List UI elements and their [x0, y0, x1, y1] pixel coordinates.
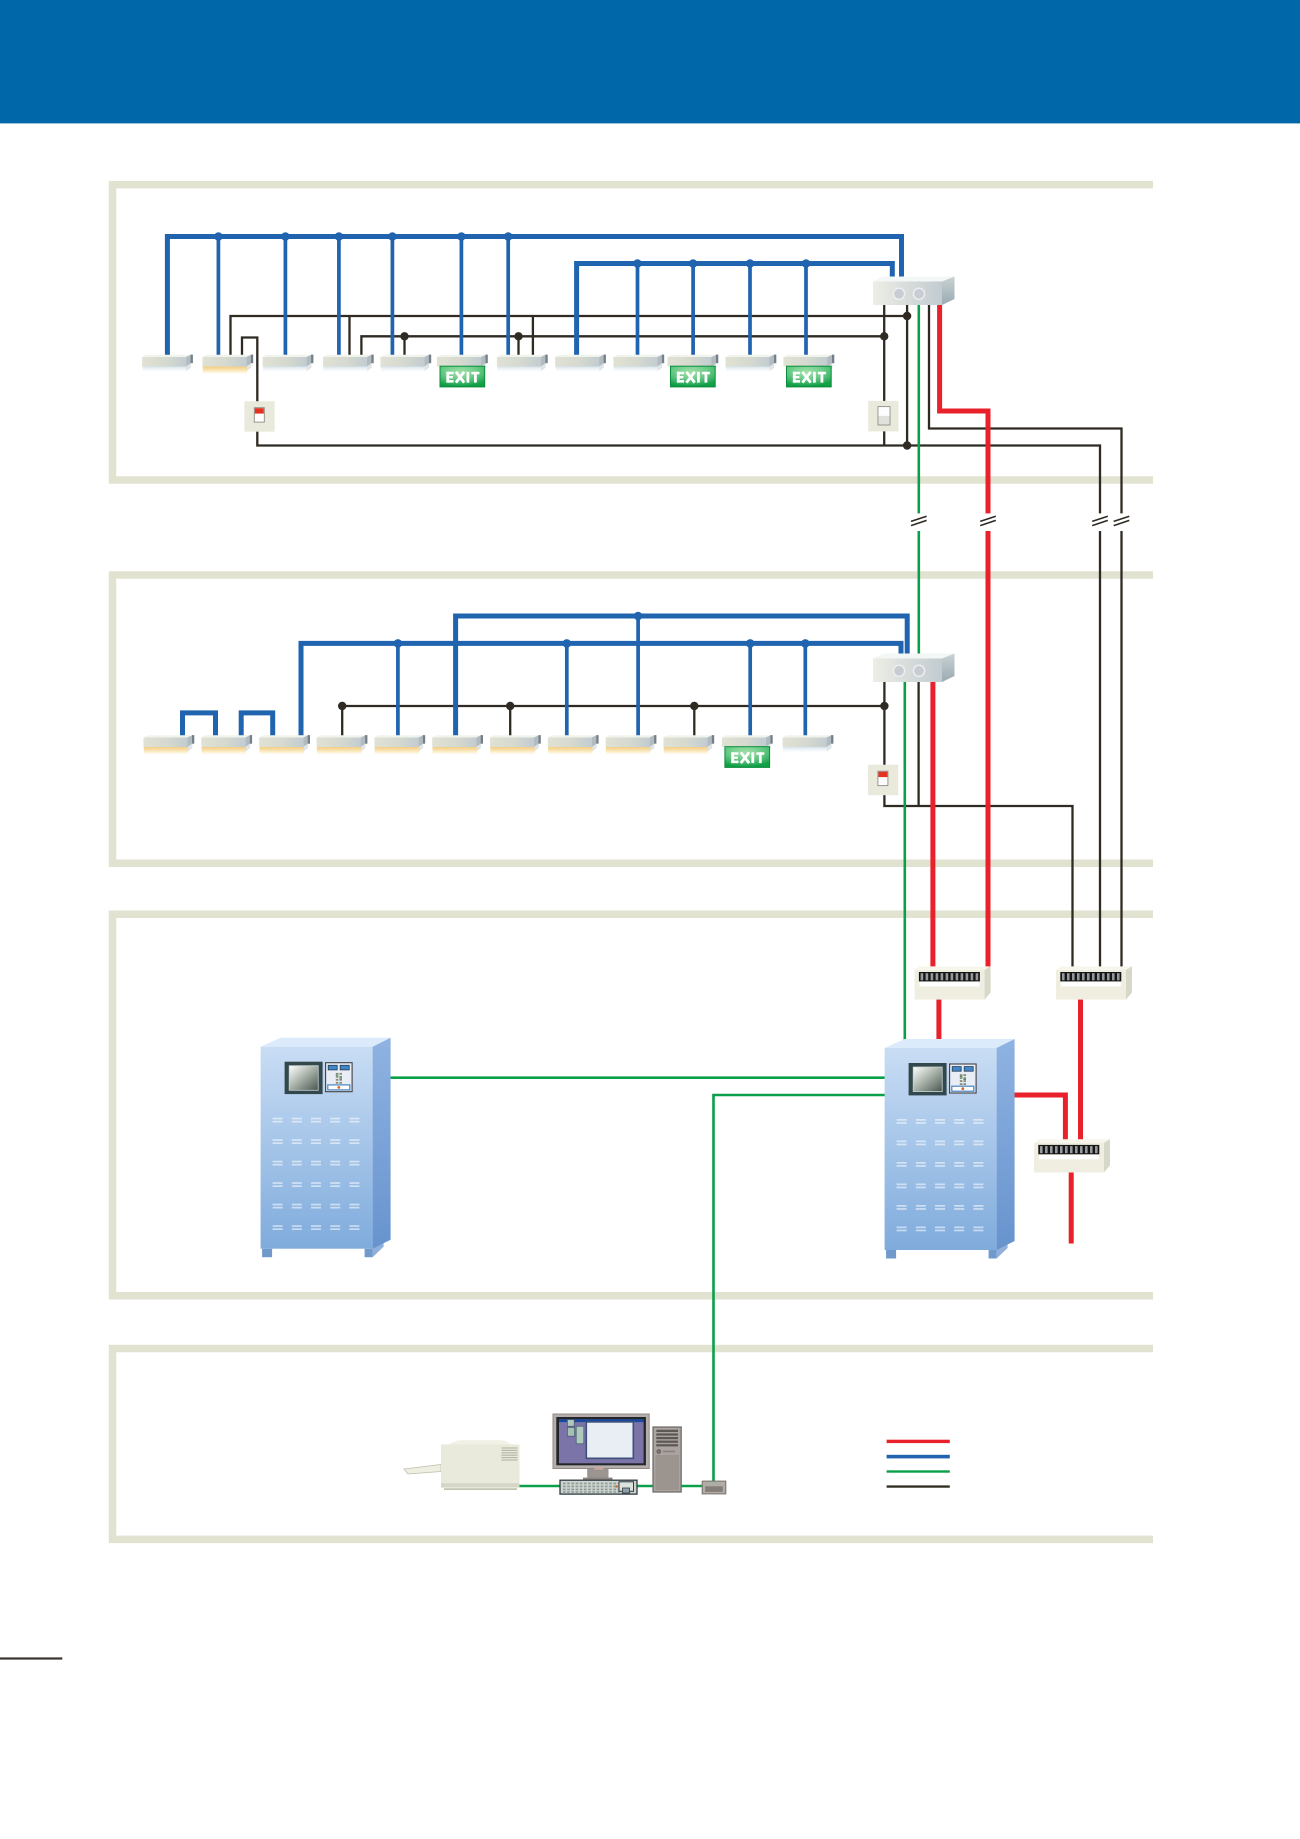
wire black controller 1 supply riser [929, 303, 1122, 513]
floor band 2 frame [113, 575, 1154, 863]
legend black line [887, 1485, 950, 1487]
legend red line [887, 1440, 950, 1443]
wire green data bus between controllers [917, 531, 920, 656]
luminaire 2-1 [144, 735, 195, 754]
wire blue jumper luminaire 2-1 to 2-2 [183, 713, 216, 737]
monitor [553, 1414, 649, 1481]
wire black stub bus G to luminaire 2-10 [693, 706, 695, 737]
luminaire 1-7 [555, 355, 606, 374]
luminaire 2-5 [374, 735, 425, 754]
wire black bus D floor 1 [361, 336, 884, 356]
junction dots bus A [214, 232, 512, 241]
wire green data bus controller 1 down [917, 303, 920, 513]
junction dots bus F [394, 639, 810, 648]
distribution board 1 [915, 966, 991, 999]
wire black drop bus C to luminaire 1-7 [532, 316, 534, 357]
junction dots black floor 2 [338, 702, 889, 710]
wire green battery unit right to monitoring pc [714, 1095, 887, 1481]
call point 1 [244, 401, 274, 432]
wire red mains controller 1 down [940, 303, 988, 513]
printer [404, 1440, 520, 1490]
luminaire 1-2 maintained [202, 355, 253, 374]
plant room band 3 frame [113, 914, 1154, 1295]
wire black riser 2 to distribution board 2 [1120, 531, 1122, 968]
exit sign 2-1 [722, 735, 773, 767]
luminaire 2-10 [663, 735, 714, 754]
footer rule [0, 1657, 62, 1659]
wire blue bus E floor 2 [456, 616, 908, 737]
luminaire 2-7 [490, 735, 541, 754]
wire black stub bus D to luminaire 1-7 [517, 336, 519, 356]
wire black call point 2 to riser bus [884, 793, 1072, 968]
wire black switch 1 to bottom bus [883, 430, 885, 446]
monitoring band 4 frame [113, 1349, 1154, 1540]
break symbol black riser 2 [1114, 516, 1130, 525]
distribution board 2 [1056, 966, 1132, 999]
wire red riser floor1 to distribution board 1 [986, 531, 991, 968]
wire black bottom bus floor 1 from call point to riser [257, 431, 1100, 513]
luminaire 1-8 [613, 355, 664, 374]
exit sign 1-1 [437, 355, 488, 387]
wire black controller 2 to bus G and call point 2 [883, 680, 885, 766]
wire black bus G floor 2 [342, 706, 884, 737]
header bar [0, 0, 1300, 123]
floor band 1 frame [113, 185, 1154, 480]
luminaire 2-8 [548, 735, 599, 754]
luminaire 1-5 [380, 355, 431, 374]
luminaire 1-3 [263, 355, 314, 374]
wire black riser 1 to distribution board 2 [1099, 531, 1101, 968]
luminaire 2-6 [432, 735, 483, 754]
break symbol black riser 1 [1092, 516, 1108, 525]
legend blue line [887, 1455, 950, 1459]
luminaire 2-9 [606, 735, 657, 754]
wire blue drops bus B [638, 264, 807, 357]
junction dot bus E [634, 612, 643, 621]
luminaire 1-4 [323, 355, 374, 374]
battery unit right [885, 1039, 1015, 1259]
break symbol green riser [911, 516, 927, 525]
legend green line [887, 1470, 950, 1472]
luminaire 1-1 [142, 355, 193, 374]
controller 2 [873, 654, 955, 683]
wire black drop bus C to luminaire 1-4 [348, 316, 350, 357]
wire black bus C floor 1 [231, 316, 908, 357]
wire red distribution board 2 to board 3 [1078, 997, 1083, 1142]
exit sign 1-2 [668, 355, 719, 387]
junction dots bus B [633, 259, 810, 268]
wire blue drop bus E to luminaire 2-9 [636, 616, 640, 737]
luminaire 2-4 [317, 735, 368, 754]
wire blue jumper luminaire 2-2 to 2-3 [241, 713, 273, 737]
wire black controller 2 tee to riser bus [917, 680, 919, 806]
wire red distribution board 1 to battery unit right [936, 997, 941, 1042]
luminaire 1-9 [726, 355, 777, 374]
junction dots black floor 1 [400, 312, 911, 450]
light switch 1 [868, 401, 898, 432]
wire red battery unit right to board 3 [1012, 1095, 1065, 1142]
luminaire 2-2 [201, 735, 252, 754]
keyboard [560, 1480, 637, 1494]
wire green pc peripherals link [519, 1485, 726, 1488]
computer tower [653, 1427, 681, 1492]
wire red mains controller 2 to distribution board 1 [930, 680, 935, 968]
luminaire 1-6 [497, 355, 548, 374]
battery unit left [261, 1038, 391, 1258]
wire black stub bus D to luminaire 1-5 [403, 336, 405, 356]
wire blue bus B floor 1 [577, 264, 893, 357]
luminaire 2-3 [259, 735, 310, 754]
network box [702, 1481, 726, 1494]
exit sign 1-3 [784, 355, 835, 387]
wire blue bus F floor 2 [301, 643, 901, 737]
wire blue bus A floor 1 [167, 237, 901, 357]
wire black controller 1 to bus D and switch [883, 303, 885, 402]
break symbol red riser [980, 516, 996, 525]
wire green data bus controller 2 to battery unit [903, 680, 906, 1042]
wire blue drops bus A [218, 237, 508, 357]
distribution board 3 [1034, 1139, 1110, 1172]
controller 1 [873, 277, 955, 306]
wire black controller 1 to bus C and bottom bus [906, 303, 908, 446]
wire black stub bus G to luminaire 2-7 [509, 706, 511, 737]
wire red stub below board 3 [1069, 1170, 1074, 1244]
wire green link between battery units [386, 1076, 886, 1079]
wire blue drops bus F [398, 643, 805, 737]
luminaire 2-11 [783, 735, 834, 754]
call point 2 [868, 765, 898, 796]
wire black luminaire 1-2 to call point 1 [242, 338, 257, 403]
